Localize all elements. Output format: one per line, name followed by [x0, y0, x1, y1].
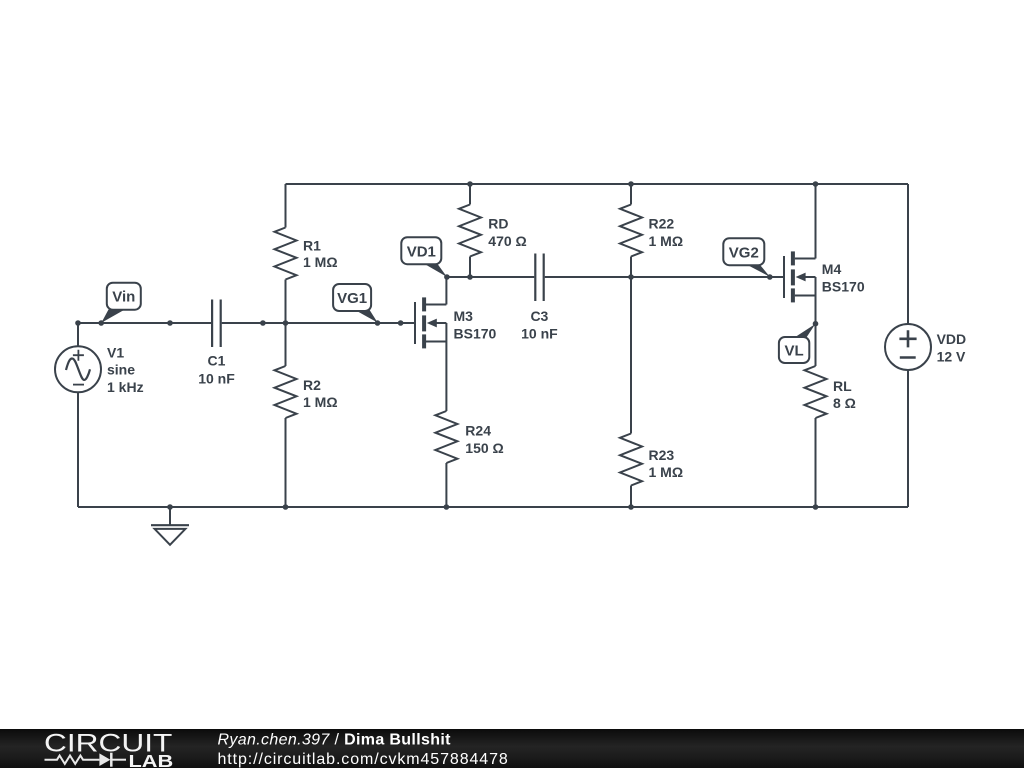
label C1 value [198, 353, 235, 387]
logo LAB text [129, 752, 174, 768]
junction dot RD top [467, 181, 473, 187]
svg-text:470 Ω: 470 Ω [488, 233, 526, 249]
wire R22 R23 branch [630, 184, 632, 507]
label R23 value [649, 447, 684, 480]
svg-text:VG2: VG2 [729, 245, 759, 262]
junction dot C1 right [260, 320, 266, 326]
logo diode triangle [99, 753, 110, 766]
junction dot M4 drain top [813, 181, 819, 187]
junction dot RD bottom [467, 274, 473, 280]
svg-text:Vin: Vin [112, 289, 135, 306]
svg-text:10 nF: 10 nF [521, 326, 558, 342]
node name VG2 [729, 245, 759, 262]
svg-text:1 MΩ: 1 MΩ [649, 464, 684, 480]
wire bottom rail [78, 506, 908, 508]
svg-text:VDD: VDD [937, 331, 967, 347]
junction dot input wire [167, 320, 173, 326]
label R24 value [465, 423, 503, 457]
resistor R24 [435, 411, 457, 463]
junction dot VD1 node [444, 274, 450, 280]
svg-text:BS170: BS170 [822, 279, 865, 295]
node flag tail VG1 [355, 310, 378, 323]
footer url [218, 751, 509, 768]
node flag box VL [779, 337, 809, 363]
wire VD1 row right of C3 [545, 276, 784, 278]
svg-text:RD: RD [488, 216, 508, 232]
wire R1 R2 branch [285, 184, 287, 507]
source V1 [55, 346, 101, 392]
svg-text:VG1: VG1 [337, 290, 367, 307]
logo resistor-diode wire [45, 753, 127, 767]
svg-text:10 nF: 10 nF [198, 370, 235, 386]
resistor R22 [620, 205, 642, 257]
junction dot R22 top [628, 181, 634, 187]
svg-text:RL: RL [833, 378, 852, 394]
svg-text:C3: C3 [530, 308, 548, 324]
svg-text:1 MΩ: 1 MΩ [303, 394, 338, 410]
junction dot R22 bottom [628, 274, 634, 280]
capacitor C3 [535, 254, 543, 302]
label V1 value [107, 344, 144, 395]
svg-text:R24: R24 [465, 423, 491, 439]
svg-text:sine: sine [107, 362, 135, 378]
svg-text:1 MΩ: 1 MΩ [303, 254, 338, 270]
svg-text:VD1: VD1 [407, 244, 436, 261]
label M3 value [454, 308, 497, 342]
node name VD1 [407, 244, 436, 261]
junction dot VL node [813, 321, 819, 327]
wire VDD branch [907, 184, 909, 507]
junction dot RL bottom [813, 504, 819, 510]
transistor M3 arrow [427, 319, 437, 328]
svg-text:M3: M3 [454, 308, 474, 324]
wire top rail [286, 183, 909, 185]
svg-text:LAB: LAB [129, 752, 174, 768]
label C3 value [521, 308, 558, 342]
resistor R23 [620, 434, 642, 486]
junction dot R23 bottom [628, 504, 634, 510]
svg-text:http://circuitlab.com/cvkm4578: http://circuitlab.com/cvkm457884478 [218, 751, 509, 768]
wire main input row [78, 322, 415, 324]
label R2 value [303, 377, 338, 410]
junction dot Vin tail [98, 320, 104, 326]
node flag box VG1 [333, 284, 371, 311]
svg-text:VL: VL [785, 343, 804, 360]
label RL value [833, 378, 856, 411]
junction dot R1 R2 tap [283, 320, 289, 326]
footer bar [0, 729, 1024, 768]
label R1 value [303, 238, 338, 271]
wire M3 source to R24 [445, 323, 447, 507]
ground [151, 507, 189, 545]
node flag tail VL [792, 324, 815, 339]
svg-text:Ryan.chen.397 / Dima Bullshit: Ryan.chen.397 / Dima Bullshit [218, 732, 452, 749]
resistor R2 [275, 366, 297, 418]
node flag box VD1 [401, 237, 441, 264]
junction dot V1 top corner [75, 320, 81, 326]
node name Vin [112, 289, 135, 306]
node flag tail VG2 [746, 264, 770, 277]
wire V1 branch [77, 323, 79, 507]
svg-text:1 MΩ: 1 MΩ [649, 233, 684, 249]
resistor RL [805, 366, 827, 418]
transistor M4 channel dashes [791, 251, 795, 302]
wire M4 source to RL [815, 277, 817, 507]
svg-text:150 Ω: 150 Ω [465, 440, 503, 456]
svg-text:R23: R23 [649, 447, 675, 463]
wire RD branch [469, 184, 471, 277]
svg-text:8 Ω: 8 Ω [833, 395, 856, 411]
junction dot M3 gate wire [398, 320, 404, 326]
svg-text:M4: M4 [822, 261, 842, 277]
label R22 value [649, 216, 684, 250]
resistor RD [459, 205, 481, 257]
svg-text:1 kHz: 1 kHz [107, 379, 144, 395]
label RD value [488, 216, 526, 250]
resistor R1 [275, 228, 297, 280]
wire VD1 row left of C3 [446, 276, 534, 278]
footer author title [218, 732, 452, 749]
transistor M4 arrow [796, 273, 806, 282]
svg-text:R1: R1 [303, 238, 321, 254]
junction dot VG1 tail [375, 320, 381, 326]
node flag tail VD1 [423, 263, 447, 277]
junction dot R24 bottom [444, 504, 450, 510]
svg-text:BS170: BS170 [454, 326, 497, 342]
svg-text:V1: V1 [107, 344, 124, 360]
svg-text:C1: C1 [208, 353, 226, 369]
node name VL [785, 343, 804, 360]
node name VG1 [337, 290, 367, 307]
node flag tail Vin [101, 310, 123, 323]
transistor M3 channel dashes [422, 297, 426, 348]
node flag box Vin [107, 283, 141, 310]
logo CIRCUIT text [44, 730, 172, 758]
svg-text:R22: R22 [649, 216, 675, 232]
transistor M3 [415, 277, 446, 344]
label M4 value [822, 261, 865, 295]
transistor M4 [784, 184, 816, 298]
source VDD [885, 324, 931, 370]
junction dot R2 bottom [283, 504, 289, 510]
svg-text:12 V: 12 V [937, 349, 966, 365]
label VDD value [937, 331, 967, 365]
junction dot ground tap [167, 504, 173, 510]
capacitor C1 [212, 300, 221, 348]
svg-text:R2: R2 [303, 377, 321, 393]
node flag box VG2 [723, 238, 764, 265]
junction dot VG2 tail [767, 274, 773, 280]
